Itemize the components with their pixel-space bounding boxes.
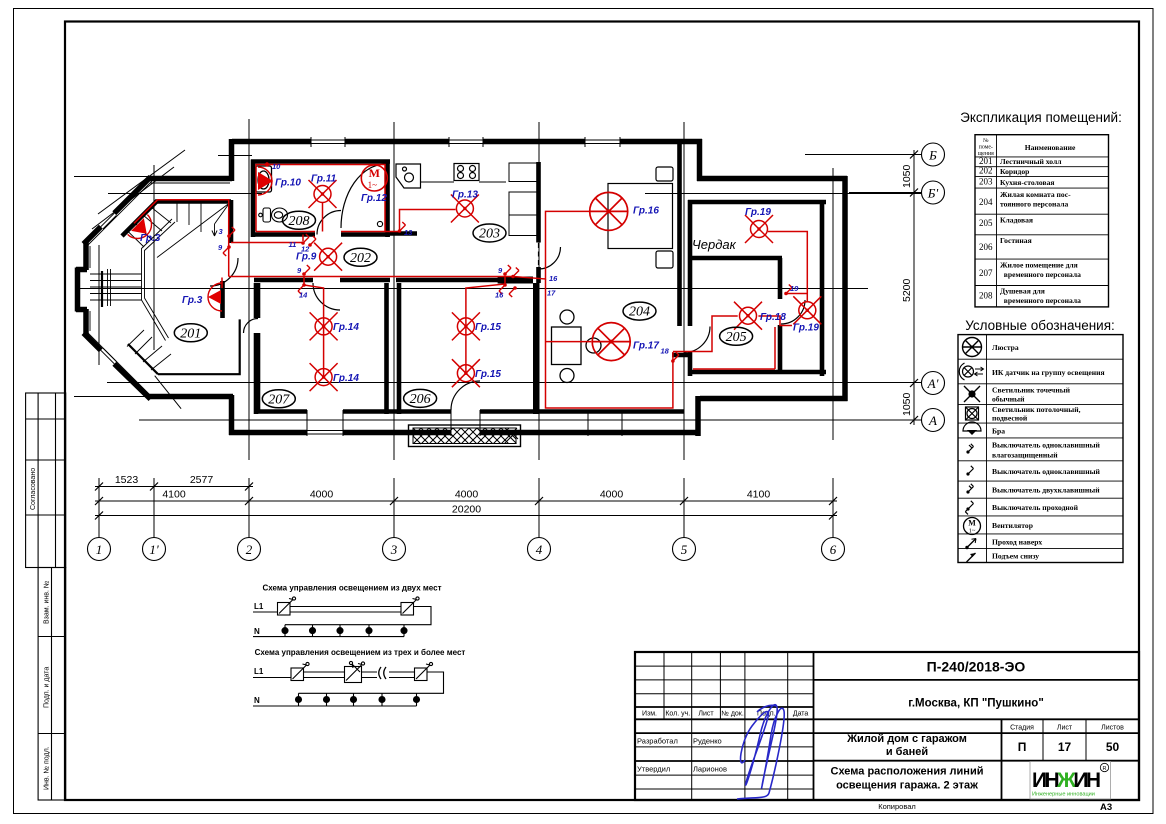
svg-text:Коридор: Коридор bbox=[1000, 167, 1029, 176]
wire Gr19 riser bbox=[768, 232, 807, 302]
legend symbol pendant light bbox=[966, 407, 979, 420]
right dim line bbox=[913, 150, 915, 425]
svg-text:и баней: и баней bbox=[886, 746, 928, 758]
svg-text:Лестничный холл: Лестничный холл bbox=[1000, 157, 1062, 166]
room tag 201 bbox=[174, 324, 207, 342]
svg-text:1: 1 bbox=[96, 542, 103, 557]
axis circle 1' bbox=[143, 538, 166, 561]
title block grid bbox=[635, 652, 814, 800]
svg-text:А: А bbox=[928, 413, 937, 428]
svg-text:4: 4 bbox=[536, 542, 543, 557]
svg-text:Жилая комната пос-: Жилая комната пос- bbox=[1000, 190, 1071, 199]
rooms 207/206 top walls bbox=[254, 278, 498, 283]
svg-text:11: 11 bbox=[289, 240, 297, 249]
svg-text:206: 206 bbox=[979, 242, 993, 252]
svg-text:Наименование: Наименование bbox=[1025, 143, 1076, 152]
door arc 201/207 bbox=[244, 319, 259, 334]
schematic 2 lamp drops bbox=[298, 693, 300, 706]
lamp Гр.19 lamp 1 bbox=[745, 215, 773, 243]
svg-text:П: П bbox=[1018, 740, 1027, 754]
svg-text:Жилое помещение для: Жилое помещение для bbox=[1000, 261, 1078, 270]
door arc 206 entry bbox=[451, 381, 480, 410]
stair room top wall bbox=[156, 199, 231, 204]
svg-text:L1: L1 bbox=[254, 667, 264, 676]
svg-text:Душевая для: Душевая для bbox=[1000, 287, 1045, 296]
svg-text:№ док.: № док. bbox=[721, 711, 743, 718]
svg-text:N: N bbox=[254, 696, 260, 705]
room 207 left wall bbox=[254, 283, 259, 414]
svg-text:временного персонала: временного персонала bbox=[1000, 296, 1081, 305]
lamp Гр.14 lamp 1 bbox=[310, 312, 338, 340]
outer walls top bbox=[76, 139, 848, 436]
bed bbox=[608, 167, 673, 268]
legend symbol switch waterproof bbox=[966, 444, 973, 454]
shower arc 208 bbox=[341, 164, 386, 228]
svg-text:Гр.16: Гр.16 bbox=[633, 206, 659, 217]
svg-text:201: 201 bbox=[180, 326, 201, 341]
svg-text:поме-: поме- bbox=[979, 145, 993, 151]
legend grid bbox=[958, 335, 1123, 563]
svg-text:14: 14 bbox=[299, 291, 308, 300]
svg-text:L1: L1 bbox=[254, 602, 264, 611]
extension inner room walls bbox=[688, 200, 826, 376]
rooms bottom inner wall bbox=[254, 409, 684, 414]
axis circle 3 bbox=[383, 538, 406, 561]
switch 16 sw drop bbox=[499, 283, 507, 294]
svg-text:5200: 5200 bbox=[901, 278, 913, 302]
switch 9 sw left bbox=[302, 265, 310, 276]
room schedule grid bbox=[975, 135, 1109, 307]
door arc 207 bbox=[313, 283, 340, 310]
axis circle 4 bbox=[528, 538, 551, 561]
axis circle 1 bbox=[88, 538, 111, 561]
room tag 208 bbox=[283, 211, 316, 229]
svg-text:А': А' bbox=[927, 376, 939, 391]
dimension line row 1 bbox=[95, 487, 837, 516]
window bay lower diagonal bbox=[101, 348, 117, 364]
wire corridor main bbox=[134, 200, 513, 277]
svg-text:2: 2 bbox=[246, 542, 253, 557]
room 207 right wall bbox=[384, 283, 389, 414]
svg-text:207: 207 bbox=[268, 392, 290, 407]
svg-text:Жилой дом с гаражом: Жилой дом с гаражом bbox=[846, 733, 967, 745]
svg-text:203: 203 bbox=[979, 177, 993, 187]
svg-text:204: 204 bbox=[979, 197, 993, 207]
legend symbol IR sensor bbox=[959, 363, 983, 380]
room tag 206 bbox=[404, 389, 437, 407]
stair arrow bbox=[212, 224, 217, 236]
axis circle 5 bbox=[673, 538, 696, 561]
stair well edge bbox=[142, 219, 176, 341]
schematic 2 return wire bbox=[299, 672, 444, 693]
room tag 207 bbox=[262, 390, 295, 408]
legend symbol pass up bbox=[965, 539, 976, 550]
stove bbox=[454, 164, 479, 181]
svg-text:Кладовая: Кладовая bbox=[1000, 216, 1033, 225]
svg-text:Стадия: Стадия bbox=[1010, 725, 1034, 732]
wall 201/207 bbox=[256, 283, 261, 413]
lamp Гр.11 lamp bbox=[309, 180, 337, 208]
svg-text:Гр.19: Гр.19 bbox=[745, 207, 771, 218]
svg-text:ИК датчик на группу освещения: ИК датчик на группу освещения bbox=[992, 368, 1105, 377]
schematic 1 switch box 1 bbox=[278, 603, 291, 616]
wire to room 204 bbox=[513, 211, 589, 279]
svg-text:Гр.11: Гр.11 bbox=[311, 174, 337, 185]
svg-text:Гостиная: Гостиная bbox=[1000, 236, 1032, 245]
svg-text:Гр.10: Гр.10 bbox=[275, 178, 301, 189]
svg-text:1~: 1~ bbox=[368, 180, 378, 190]
svg-text:Схема управления освещением из: Схема управления освещением из двух мест bbox=[262, 584, 441, 593]
wall step to extension bbox=[697, 139, 703, 181]
switch 16 sw bbox=[511, 268, 519, 279]
svg-text:17: 17 bbox=[1058, 740, 1072, 754]
porch hatch bbox=[409, 425, 521, 447]
svg-text:Гр.15: Гр.15 bbox=[475, 322, 501, 333]
shower drain bbox=[377, 221, 382, 226]
toilet bbox=[259, 208, 288, 222]
schematic 2 cross switch box bbox=[345, 667, 362, 683]
switch 9 sw right bbox=[503, 265, 511, 276]
schematic 2 break marks bbox=[379, 667, 386, 679]
svg-text:Подъем снизу: Подъем снизу bbox=[992, 552, 1039, 561]
legend symbol spot light bbox=[964, 386, 980, 402]
extension right wall bbox=[842, 176, 848, 401]
svg-text:4000: 4000 bbox=[310, 489, 334, 501]
logo ИНЖИН bbox=[1030, 762, 1111, 800]
svg-text:Взам. инв. №: Взам. инв. № bbox=[44, 581, 51, 624]
wire bra lower Gr3 bbox=[221, 278, 223, 289]
svg-text:М: М bbox=[968, 519, 976, 528]
svg-text:Инв. № подл.: Инв. № подл. bbox=[44, 746, 51, 790]
kitchen counters bbox=[421, 163, 541, 236]
fan M1 bbox=[361, 165, 387, 191]
door arc corridor/204 bbox=[539, 247, 561, 269]
bay wall inner faces bbox=[88, 181, 230, 397]
wall face extensions bbox=[74, 177, 150, 397]
svg-text:Гр.14: Гр.14 bbox=[333, 373, 359, 384]
sidebar lower stamps bbox=[38, 568, 66, 801]
svg-text:208: 208 bbox=[289, 214, 310, 229]
kitchen corridor stub bbox=[390, 231, 417, 236]
svg-text:Изм.: Изм. bbox=[642, 711, 657, 718]
schematic 2 L1 wire bbox=[253, 677, 291, 679]
svg-text:204: 204 bbox=[629, 305, 650, 320]
legend symbol switch pass-through bbox=[965, 501, 973, 515]
stair room right wall bbox=[229, 200, 234, 243]
svg-text:освещения гаража. 2 этаж: освещения гаража. 2 этаж bbox=[836, 780, 978, 792]
bay top wall bbox=[149, 176, 232, 182]
legend symbol rise from below bbox=[967, 553, 976, 562]
svg-text:Кухня-столовая: Кухня-столовая bbox=[1000, 178, 1055, 187]
legend symbol sconce bbox=[963, 422, 981, 435]
axis circle 2 bbox=[238, 538, 261, 561]
switch 3/9 b bbox=[223, 245, 231, 256]
switch 3/9 a bbox=[227, 227, 235, 238]
svg-text:Гр.13: Гр.13 bbox=[452, 190, 478, 201]
axis circle А bbox=[922, 409, 945, 432]
axis circle Б bbox=[922, 143, 945, 166]
svg-text:Гр.3: Гр.3 bbox=[140, 233, 161, 244]
wire room 208 loop bbox=[256, 165, 385, 232]
svg-text:временного персонала: временного персонала bbox=[1000, 270, 1081, 279]
svg-text:Выключатель одноклавишный: Выключатель одноклавишный bbox=[992, 467, 1101, 476]
winder steps upper bbox=[127, 207, 171, 247]
winder steps lower bbox=[127, 330, 171, 370]
door opening 206 bottom bbox=[451, 410, 480, 436]
lamp Гр.13 lamp bbox=[451, 195, 479, 223]
switch 11 sw bbox=[301, 234, 309, 245]
svg-text:влагозащищенный: влагозащищенный bbox=[992, 451, 1058, 460]
axis circle 6 bbox=[822, 538, 845, 561]
extension top wall bbox=[697, 176, 847, 182]
switch 18 sw bbox=[671, 352, 679, 363]
svg-text:2577: 2577 bbox=[190, 474, 214, 486]
lamp Гр.15 lamp 1 bbox=[452, 312, 480, 340]
svg-text:Руденко: Руденко bbox=[693, 737, 722, 746]
svg-text:1050: 1050 bbox=[901, 392, 913, 416]
svg-text:Гр.3: Гр.3 bbox=[182, 295, 203, 306]
door dashes corridor/204 bbox=[538, 243, 540, 267]
svg-text:тоянного персонала: тоянного персонала bbox=[1000, 200, 1069, 209]
svg-text:201: 201 bbox=[979, 156, 993, 166]
left flight stringer bbox=[108, 269, 111, 306]
axis circle А' bbox=[922, 372, 945, 395]
svg-text:Чердак: Чердак bbox=[692, 237, 737, 252]
wire Gr14 drop bbox=[304, 277, 324, 377]
bra Гр.3 upper bbox=[128, 215, 158, 245]
schematic 2 link 2 bbox=[362, 672, 415, 678]
svg-text:203: 203 bbox=[479, 227, 500, 242]
axis grid vertical lines bbox=[75, 119, 921, 538]
wall 206/204 bbox=[533, 283, 539, 414]
svg-text:Лист: Лист bbox=[698, 711, 714, 718]
svg-text:16: 16 bbox=[495, 291, 504, 300]
svg-text:207: 207 bbox=[979, 268, 993, 278]
svg-text:50: 50 bbox=[1106, 740, 1120, 754]
svg-text:Люстра: Люстра bbox=[992, 343, 1019, 352]
bra Гр.3 lower bbox=[208, 283, 222, 311]
bottom outer wall bbox=[229, 430, 700, 436]
stair top flight steps bbox=[177, 204, 201, 233]
door arc 208 bbox=[317, 211, 341, 235]
svg-text:Экспликация помещений:: Экспликация помещений: bbox=[960, 110, 1122, 125]
schematic 2 link 1 bbox=[304, 672, 345, 678]
chandelier Гр.16 bbox=[590, 192, 628, 230]
wire to room 205 bbox=[673, 316, 738, 352]
sidebar approval grid bbox=[26, 393, 66, 568]
wire Gr17 branch bbox=[546, 341, 592, 343]
svg-text:19: 19 bbox=[790, 284, 799, 293]
svg-text:Согласовано: Согласовано bbox=[30, 468, 37, 510]
wire lamp Gr11 drop bbox=[322, 203, 324, 232]
svg-text:обычный: обычный bbox=[992, 395, 1025, 404]
svg-text:Дата: Дата bbox=[793, 711, 809, 718]
svg-text:3: 3 bbox=[390, 542, 398, 557]
svg-text:4000: 4000 bbox=[600, 489, 624, 501]
extension bottom wall bbox=[700, 396, 848, 402]
svg-text:205: 205 bbox=[726, 330, 747, 345]
schematic 2 N wire bbox=[253, 705, 417, 707]
svg-text:202: 202 bbox=[350, 251, 371, 266]
switch 12 sw bbox=[308, 236, 316, 247]
svg-text:Гр.17: Гр.17 bbox=[633, 341, 659, 352]
svg-text:Б: Б bbox=[928, 148, 937, 163]
wire Gr18 to wall bbox=[758, 316, 792, 326]
svg-text:10: 10 bbox=[272, 162, 281, 171]
svg-text:208: 208 bbox=[979, 291, 993, 301]
canopy diagonal lines bbox=[92, 150, 185, 229]
dimension ticks bbox=[95, 483, 837, 520]
door arc 204/205 bbox=[684, 327, 710, 353]
wire switch 11/12 bbox=[302, 235, 304, 242]
switch 17 sw bbox=[509, 286, 517, 297]
first step edge bbox=[101, 271, 103, 307]
svg-text:N: N bbox=[254, 627, 260, 636]
svg-text:1~: 1~ bbox=[969, 528, 976, 535]
extension lower left wall bbox=[695, 396, 701, 436]
svg-text:№: № bbox=[983, 138, 989, 144]
room 208 walls bbox=[251, 160, 390, 238]
kitchen sink bbox=[396, 164, 421, 188]
svg-text:Гр.14: Гр.14 bbox=[333, 322, 359, 333]
corridor end pier bbox=[498, 277, 533, 284]
svg-text:Бра: Бра bbox=[992, 427, 1005, 436]
svg-text:А3: А3 bbox=[1100, 802, 1112, 813]
lower stair boundary 201 bbox=[128, 319, 240, 374]
wall 203/204 upper bbox=[536, 162, 541, 243]
left flight steps bbox=[90, 274, 142, 300]
schematic 1 return wire bbox=[285, 607, 431, 625]
stair direction lines bbox=[157, 203, 230, 258]
chandelier Гр.17 bbox=[592, 323, 630, 361]
svg-text:Выключатель проходной: Выключатель проходной bbox=[992, 503, 1079, 512]
svg-text:Копировал: Копировал bbox=[878, 802, 916, 811]
svg-text:Гр.15: Гр.15 bbox=[475, 369, 501, 380]
room tag 202 bbox=[344, 248, 377, 266]
bay lower vertical bbox=[229, 395, 235, 435]
svg-text:Инженерные инновации: Инженерные инновации bbox=[1032, 792, 1095, 798]
bay left wall with jog bbox=[76, 242, 87, 335]
switch 19 sw bbox=[784, 285, 792, 296]
svg-text:П-240/2018-ЭО: П-240/2018-ЭО bbox=[927, 659, 1026, 675]
wire 204 bottom loop bbox=[546, 279, 673, 408]
switch 13 sw bbox=[398, 222, 406, 233]
lamp Гр.19 lamp 2 bbox=[793, 296, 821, 324]
bay upper diagonal bbox=[84, 177, 151, 244]
svg-text:12: 12 bbox=[301, 245, 310, 254]
room 206 left wall bbox=[397, 283, 402, 414]
wire Gr15 drop bbox=[466, 277, 505, 373]
switch 14 sw bbox=[298, 283, 306, 294]
schematic 1 switch box 2 bbox=[401, 603, 414, 616]
svg-text:Вентилятор: Вентилятор bbox=[992, 521, 1033, 530]
table and chairs 204 bbox=[552, 310, 602, 383]
svg-text:1': 1' bbox=[149, 542, 159, 557]
axis circle Б' bbox=[922, 181, 945, 204]
svg-text:1523: 1523 bbox=[115, 474, 139, 486]
svg-text:Кол. уч.: Кол. уч. bbox=[665, 711, 690, 718]
title block outline bbox=[635, 652, 1139, 800]
wall 204 left lower bbox=[536, 267, 541, 283]
svg-text:16: 16 bbox=[549, 274, 558, 283]
legend symbol chandelier bbox=[963, 338, 982, 357]
svg-text:Схема управления освещением из: Схема управления освещением из трех и бо… bbox=[255, 648, 466, 657]
lamp Гр.14 lamp 2 bbox=[310, 363, 338, 391]
svg-text:205: 205 bbox=[979, 218, 993, 228]
door arc 201-corridor bbox=[210, 258, 238, 286]
svg-text:Утвердил: Утвердил bbox=[637, 765, 670, 774]
legend symbol fan bbox=[964, 518, 981, 535]
schematic 1 N wire bbox=[253, 636, 404, 638]
svg-text:Схема расположения линий: Схема расположения линий bbox=[831, 766, 984, 778]
schematic 1 link wires bbox=[290, 607, 401, 613]
svg-text:6: 6 bbox=[830, 542, 837, 557]
schematic 1 L1 wire bbox=[253, 611, 278, 613]
wire kitchen Gr13 bbox=[385, 210, 456, 232]
svg-text:206: 206 bbox=[410, 392, 431, 407]
legend symbol switch 2-gang bbox=[966, 484, 973, 494]
svg-text:17: 17 bbox=[547, 289, 556, 298]
lamp Гр.18 lamp bbox=[734, 302, 762, 330]
svg-text:Выключатель одноклавишный: Выключатель одноклавишный bbox=[992, 441, 1101, 450]
svg-text:18: 18 bbox=[661, 347, 670, 356]
door arc 205 inner bbox=[781, 300, 805, 324]
room tag 203 bbox=[473, 224, 506, 242]
window bay upper diagonal bbox=[101, 213, 117, 229]
wire stair to switch row bbox=[231, 242, 303, 244]
svg-text:Б': Б' bbox=[927, 186, 939, 201]
svg-text:г.Москва, КП "Пушкино": г.Москва, КП "Пушкино" bbox=[908, 698, 1044, 710]
wall 201 door side bbox=[220, 281, 225, 318]
svg-text:4000: 4000 bbox=[455, 489, 479, 501]
svg-text:Разработал: Разработал bbox=[637, 737, 678, 746]
stair room diagonal wall bbox=[122, 201, 158, 237]
schematic 2 switch box 3 bbox=[415, 668, 428, 681]
room tag 204 bbox=[623, 302, 656, 320]
bay top vertical bbox=[229, 139, 235, 181]
svg-text:Выключатель двухклавишный: Выключатель двухклавишный bbox=[992, 486, 1100, 495]
svg-text:5: 5 bbox=[681, 542, 688, 557]
bra Гр.10 bbox=[258, 162, 273, 195]
svg-text:202: 202 bbox=[979, 166, 993, 176]
wall 204/205 lower piece bbox=[672, 353, 690, 358]
svg-text:ИНЖИН: ИНЖИН bbox=[1032, 769, 1100, 792]
svg-text:4100: 4100 bbox=[162, 489, 186, 501]
signature bbox=[737, 705, 784, 799]
schematic 2 switch box 1 bbox=[291, 668, 304, 681]
svg-text:Ларионов: Ларионов bbox=[693, 765, 727, 774]
windows top wall bbox=[101, 137, 622, 436]
wire 205 bottom bbox=[693, 327, 775, 369]
wall 204/205 bbox=[677, 144, 682, 326]
cherdak/205 wall bbox=[690, 258, 782, 374]
bay bottom wall bbox=[149, 394, 233, 400]
svg-text:подвесной: подвесной bbox=[992, 414, 1028, 423]
svg-text:Гр.12: Гр.12 bbox=[361, 193, 387, 204]
svg-text:R: R bbox=[1103, 766, 1107, 772]
svg-text:Лист: Лист bbox=[1057, 725, 1073, 732]
svg-text:М: М bbox=[369, 166, 380, 180]
svg-text:Листов: Листов bbox=[1101, 725, 1124, 732]
schematic 1 lamp drops bbox=[284, 625, 286, 637]
lamp Гр.15 lamp 2 bbox=[452, 359, 480, 387]
svg-text:Светильник точечный: Светильник точечный bbox=[992, 386, 1071, 395]
lamp Гр.9 lamp bbox=[314, 243, 342, 271]
room tag 205 bbox=[720, 327, 753, 345]
svg-text:20200: 20200 bbox=[452, 504, 481, 516]
legend symbol switch bbox=[966, 466, 973, 476]
windows bottom wall bbox=[307, 410, 343, 436]
